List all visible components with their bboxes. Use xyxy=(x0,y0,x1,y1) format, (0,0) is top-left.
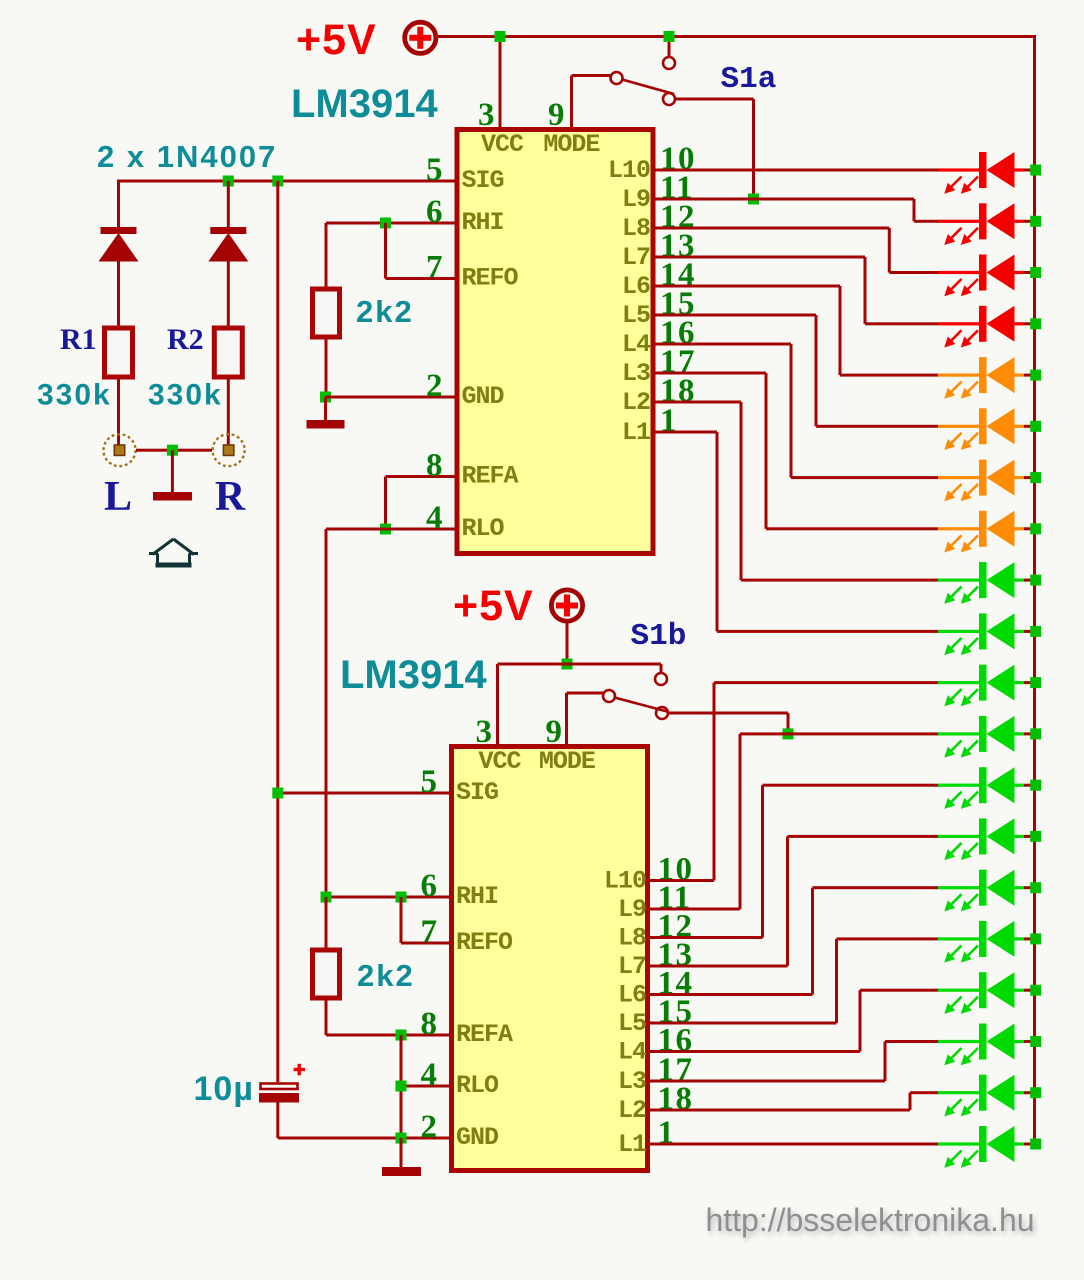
wire SIG1 bus xyxy=(117,180,455,183)
svg-text:L1: L1 xyxy=(618,1130,646,1159)
wire C1 to GND2 xyxy=(276,1103,279,1139)
diode D2 triangle xyxy=(208,233,248,262)
junction REFA1/RLO1 xyxy=(380,524,391,535)
junction LED8/rail xyxy=(1030,523,1041,534)
wire MODE1 riser xyxy=(570,76,573,128)
svg-text:GND: GND xyxy=(456,1123,499,1152)
wire GND1 ground stem xyxy=(324,397,327,420)
svg-text:18: 18 xyxy=(658,1081,694,1117)
LED16 xyxy=(938,921,1035,963)
diode D1 triangle xyxy=(99,233,139,262)
switch S1a blade xyxy=(622,80,674,95)
wire GND1 xyxy=(326,396,455,399)
wire U2 L7 to LED14 xyxy=(648,835,939,968)
wire REFA2-RLO2-GND2 vertical xyxy=(400,1035,403,1138)
svg-text:RHI: RHI xyxy=(456,882,498,911)
junction LED1/rail xyxy=(1030,165,1041,176)
svg-text:7: 7 xyxy=(426,250,444,286)
LED15 xyxy=(938,870,1035,912)
LED13 xyxy=(938,767,1035,809)
wire U2 L3 to LED18 xyxy=(648,1040,939,1083)
junction LED6/rail xyxy=(1030,421,1041,432)
svg-text:L4: L4 xyxy=(618,1038,647,1067)
svg-text:+5V: +5V xyxy=(296,16,377,64)
svg-text:R2: R2 xyxy=(167,323,204,356)
wire REFO1 riser xyxy=(384,223,387,279)
junction LED12/rail xyxy=(1030,728,1041,739)
wire MODE2 to S1b pole xyxy=(567,692,604,695)
svg-text:REFO: REFO xyxy=(462,264,519,293)
junction SIG column/SIG2 xyxy=(272,788,283,799)
svg-text:http://bsselektronika.hu: http://bsselektronika.hu xyxy=(705,1202,1034,1238)
wire R4 bottom lead xyxy=(325,998,328,1035)
switch S1a pole contact xyxy=(611,72,623,84)
junction LED18/rail xyxy=(1030,1036,1041,1047)
svg-text:10µ: 10µ xyxy=(194,1070,254,1108)
wire S1b throw stub xyxy=(660,664,663,673)
LED2 xyxy=(938,203,1035,245)
svg-text:L9: L9 xyxy=(622,185,650,214)
junction LED9/rail xyxy=(1030,575,1041,586)
wire R3 to GND1 xyxy=(325,337,328,397)
wire U1 L1 to LED10 xyxy=(653,431,938,633)
power symbol +5V (top) circled plus xyxy=(405,22,436,53)
wire REFA1 riser to RLO1 xyxy=(384,477,387,530)
wire U1 L4 to LED7 xyxy=(653,343,938,480)
junction LED10/rail xyxy=(1030,626,1041,637)
svg-text:R1: R1 xyxy=(60,323,97,356)
wire U1 L3 to LED8 xyxy=(653,372,938,531)
wire S1b throw horizontal xyxy=(669,712,789,715)
wire between terminals xyxy=(136,449,212,452)
svg-text:L1: L1 xyxy=(622,418,650,447)
wire U1 L10 to LED1 xyxy=(653,169,938,172)
svg-text:LM3914: LM3914 xyxy=(340,653,487,697)
junction GND2 vertical xyxy=(396,1133,407,1144)
wire RHI1 xyxy=(326,222,455,225)
wire MODE2 riser xyxy=(565,693,568,744)
svg-text:1: 1 xyxy=(660,403,678,439)
svg-text:REFO: REFO xyxy=(456,928,513,957)
junction GND1/R3 xyxy=(320,392,331,403)
wire +5V top rail xyxy=(436,35,1037,38)
svg-text:2k2: 2k2 xyxy=(356,294,414,329)
wire U1 L7 to LED4 xyxy=(653,256,938,326)
svg-text:L5: L5 xyxy=(618,1009,646,1038)
LED3 xyxy=(938,255,1035,297)
terminal R pad xyxy=(213,434,245,466)
LED1 xyxy=(938,152,1035,194)
resistor R1 body xyxy=(105,328,133,377)
svg-text:8: 8 xyxy=(426,448,444,484)
IC U2 LM3914 body xyxy=(452,747,648,1171)
wire U1 L2 to LED9 xyxy=(653,401,938,582)
diode D2 cathode bar xyxy=(210,227,246,234)
wire SIG column (long vertical) xyxy=(276,181,279,1082)
LED7 xyxy=(938,460,1035,502)
svg-text:VCC: VCC xyxy=(478,747,521,776)
svg-text:+5V: +5V xyxy=(453,582,534,630)
junction +5V mid node xyxy=(562,659,573,670)
svg-text:MODE: MODE xyxy=(539,747,595,776)
svg-text:GND: GND xyxy=(462,382,505,411)
svg-text:2: 2 xyxy=(421,1109,439,1145)
wire RLO1 down to RHI2 (long) xyxy=(325,529,328,897)
svg-text:2 x 1N4007: 2 x 1N4007 xyxy=(97,139,277,174)
switch S1b upper throw contact xyxy=(655,673,667,685)
terminal L pad xyxy=(104,434,136,466)
svg-text:L9: L9 xyxy=(618,895,646,924)
svg-text:5: 5 xyxy=(421,764,439,800)
wire GND2 xyxy=(278,1137,449,1140)
switch S1b pole contact xyxy=(603,690,615,702)
wire SIG2 xyxy=(278,792,449,795)
svg-text:R: R xyxy=(215,474,246,520)
svg-text:LM3914: LM3914 xyxy=(291,82,438,126)
junction REFA2 vertical xyxy=(396,1030,407,1041)
LED20 xyxy=(938,1126,1035,1168)
wire RHI2 xyxy=(326,896,449,899)
capacitor C1 plus mark xyxy=(294,1064,306,1076)
junction LED3/rail xyxy=(1030,267,1041,278)
junction bus/D2 xyxy=(223,176,234,187)
svg-text:REFA: REFA xyxy=(462,462,519,491)
svg-text:2k2: 2k2 xyxy=(357,958,415,993)
svg-text:L6: L6 xyxy=(618,981,646,1010)
LED6 xyxy=(938,408,1035,450)
diode D1 cathode bar xyxy=(101,227,137,234)
junction bus/SIG column xyxy=(272,176,283,187)
junction terminals/ground xyxy=(167,445,178,456)
wire D2 to R2 xyxy=(227,261,230,326)
wire +5V mid drop xyxy=(566,623,569,665)
svg-text:L5: L5 xyxy=(622,301,650,330)
svg-text:L10: L10 xyxy=(604,867,646,896)
svg-text:7: 7 xyxy=(421,914,439,950)
wire S1b throw vertical xyxy=(787,713,790,734)
junction LED2/rail xyxy=(1030,216,1041,227)
wire GND2 ground stem xyxy=(400,1138,403,1167)
svg-text:4: 4 xyxy=(421,1057,439,1093)
wire S1a throw to L9 net horizontal xyxy=(676,98,754,101)
svg-text:3: 3 xyxy=(478,97,496,133)
LED8 xyxy=(938,511,1035,553)
junction RHI2/R4 xyxy=(321,892,332,903)
wire R4 top lead xyxy=(325,897,328,950)
resistor R3 body xyxy=(313,289,340,337)
LED18 xyxy=(938,1024,1035,1066)
svg-text:REFA: REFA xyxy=(456,1020,513,1049)
svg-text:6: 6 xyxy=(426,194,444,230)
svg-text:SIG: SIG xyxy=(462,166,504,195)
svg-text:330k: 330k xyxy=(148,379,223,412)
junction LED15/rail xyxy=(1030,882,1041,893)
wire U2 L1 to LED20 xyxy=(648,1143,939,1146)
svg-text:RHI: RHI xyxy=(462,208,504,237)
junction rail/S1a xyxy=(664,31,675,42)
svg-text:3: 3 xyxy=(476,714,494,750)
svg-text:1: 1 xyxy=(658,1115,676,1151)
junction LED13/rail xyxy=(1030,780,1041,791)
svg-text:S1b: S1b xyxy=(631,619,687,654)
LED9 xyxy=(938,562,1035,604)
svg-text:RLO: RLO xyxy=(456,1071,499,1100)
wire REFO2 xyxy=(401,942,449,945)
junction LED5/rail xyxy=(1030,370,1041,381)
svg-text:4: 4 xyxy=(426,500,444,536)
LED17 xyxy=(938,972,1035,1014)
svg-text:2: 2 xyxy=(426,368,444,404)
junction LED7/rail xyxy=(1030,472,1041,483)
wire +5V mid horizontal xyxy=(498,663,662,666)
wire bus down to D1 xyxy=(117,181,120,227)
svg-text:SIG: SIG xyxy=(456,778,498,807)
svg-text:L2: L2 xyxy=(622,388,650,417)
LED5 xyxy=(938,357,1035,399)
LED10 xyxy=(938,613,1035,655)
wire U2 L6 to LED15 xyxy=(648,886,939,996)
resistor R2 body xyxy=(214,328,242,377)
svg-text:L10: L10 xyxy=(608,156,650,185)
wire U2 L5 to LED16 xyxy=(648,937,939,1024)
wire RLO1 xyxy=(326,528,455,531)
capacitor C1 top plate xyxy=(261,1084,298,1090)
wire U1 L6 to LED5 xyxy=(653,285,938,377)
power symbol +5V (mid) circled plus xyxy=(551,590,582,621)
svg-text:L7: L7 xyxy=(622,243,650,272)
wire U2 L4 to LED17 xyxy=(648,989,939,1053)
svg-text:L4: L4 xyxy=(622,330,651,359)
IC U1 LM3914 body xyxy=(457,130,653,554)
LED4 xyxy=(938,306,1035,348)
svg-text:9: 9 xyxy=(548,97,566,133)
wire RHI1 down to R3 xyxy=(325,223,328,289)
svg-text:L8: L8 xyxy=(622,214,650,243)
wire D1 to R1 xyxy=(117,261,120,326)
junction LED16/rail xyxy=(1030,933,1041,944)
resistor R4 body xyxy=(313,950,340,998)
svg-text:5: 5 xyxy=(426,152,444,188)
junction RLO2 vertical xyxy=(396,1081,407,1092)
wire S1a throw to L9 net vertical xyxy=(752,99,755,199)
wire REFO1 xyxy=(386,277,455,280)
junction S1a/L9 wire xyxy=(748,194,759,205)
wire U1 L5 to LED6 xyxy=(653,314,938,428)
wire U2 L9 to LED12 xyxy=(648,732,939,910)
wire R2 to terminal R xyxy=(227,380,230,446)
svg-text:8: 8 xyxy=(421,1006,439,1042)
ground bar (IC2 GND) xyxy=(382,1167,421,1176)
LED12 xyxy=(938,716,1035,758)
LED14 xyxy=(938,818,1035,860)
capacitor C1 bottom plate xyxy=(259,1093,299,1103)
junction RHI2/REFO2 xyxy=(396,892,407,903)
wire terminals to signal ground xyxy=(171,450,174,492)
wire +5V right rail xyxy=(1033,37,1036,1145)
wire VCC2 drop xyxy=(496,664,499,744)
junction LED20/rail xyxy=(1030,1139,1041,1150)
wire U1 L9 to LED2 xyxy=(653,198,938,223)
svg-text:L7: L7 xyxy=(618,952,646,981)
svg-text:6: 6 xyxy=(421,868,439,904)
svg-text:L: L xyxy=(104,474,132,520)
switch S1b blade xyxy=(615,698,668,712)
switch S1a upper throw contact xyxy=(663,57,675,69)
wire REFA1 xyxy=(386,475,455,478)
wire MODE1 to S1a pole xyxy=(572,74,611,77)
wire REFA2 xyxy=(326,1034,449,1037)
junction LED19/rail xyxy=(1030,1087,1041,1098)
svg-text:330k: 330k xyxy=(37,379,112,412)
chassis/house symbol xyxy=(149,539,198,568)
wire rail to S1a throw stub xyxy=(668,37,671,58)
wire RLO2 xyxy=(401,1085,449,1088)
junction LED4/rail xyxy=(1030,318,1041,329)
wire U2 L2 to LED19 xyxy=(648,1091,939,1111)
signal ground bar xyxy=(153,492,192,501)
switch S1a lower throw contact xyxy=(663,93,675,105)
svg-text:L6: L6 xyxy=(622,272,650,301)
wire R1 to terminal L xyxy=(117,380,120,446)
svg-text:L2: L2 xyxy=(618,1096,646,1125)
junction LED11/rail xyxy=(1030,677,1041,688)
svg-text:RLO: RLO xyxy=(462,514,505,543)
svg-text:L8: L8 xyxy=(618,924,646,953)
watermark URL xyxy=(705,1202,1036,1241)
svg-text:L3: L3 xyxy=(622,359,650,388)
wire bus down to D2 xyxy=(227,181,230,227)
switch S1b lower throw contact xyxy=(656,707,668,719)
junction LED14/rail xyxy=(1030,831,1041,842)
junction rail/VCC1 xyxy=(495,31,506,42)
LED11 xyxy=(938,665,1035,707)
wire VCC1 drop from rail to pin 3 xyxy=(499,37,502,128)
ground bar (IC1 GND) xyxy=(307,420,345,429)
svg-text:L3: L3 xyxy=(618,1067,646,1096)
wire U2 L8 to LED13 xyxy=(648,784,939,939)
svg-text:S1a: S1a xyxy=(721,62,777,97)
junction RHI1/REFO1 xyxy=(380,218,391,229)
wire U2 L10 to LED11 xyxy=(648,681,939,882)
junction S1b/L9(U2) wire xyxy=(783,728,794,739)
svg-text:VCC: VCC xyxy=(481,130,524,159)
wire REFO2 riser xyxy=(400,897,403,943)
svg-text:MODE: MODE xyxy=(543,130,599,159)
svg-text:9: 9 xyxy=(546,714,564,750)
junction LED17/rail xyxy=(1030,985,1041,996)
wire U1 L8 to LED3 xyxy=(653,227,938,275)
LED19 xyxy=(938,1075,1035,1117)
